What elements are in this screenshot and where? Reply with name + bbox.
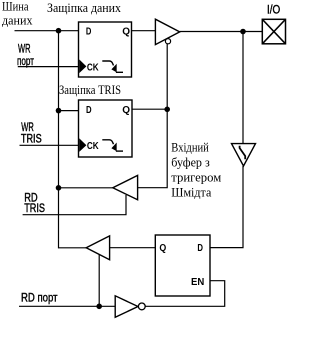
wire bus to D of TRIS latch: [59, 110, 79, 112]
svg-text:Шина: Шина: [2, 0, 29, 14]
svg-text:Вхідний: Вхідний: [171, 140, 209, 154]
svg-text:Шмідта: Шмідта: [171, 185, 211, 199]
wire I/O junction down to Schmitt buffer: [242, 32, 244, 144]
hysteresis symbol: [240, 146, 246, 160]
svg-text:I/O: I/O: [267, 4, 280, 16]
inverter bubble: [138, 303, 145, 310]
wire RD порт to inverter: [19, 305, 115, 307]
svg-text:буфер з: буфер з: [171, 155, 210, 169]
wire WR порт to CK of data latch: [18, 66, 79, 68]
wire EN to inverter output: [145, 281, 225, 307]
node TRIS-Q/enable junction: [164, 107, 170, 113]
node I/O junction: [240, 29, 246, 35]
clock input triangle of TRIS latch: [79, 138, 86, 152]
RD TRIS buffer (left pointing): [113, 175, 138, 199]
wire data bus horizontal to D of data latch: [15, 30, 79, 32]
read buffer (RD port, left pointing): [86, 236, 109, 260]
node bus/RD-TRIS junction: [56, 185, 62, 191]
tri-state output buffer: [155, 19, 179, 44]
D latch U1 (data latch) box: [79, 22, 132, 77]
svg-text:CK: CK: [87, 61, 99, 73]
svg-text:Защіпка даних: Защіпка даних: [47, 1, 122, 15]
node bus/TRIS-D junction: [56, 108, 62, 114]
svg-text:EN: EN: [191, 276, 204, 288]
svg-text:TRIS: TRIS: [21, 134, 42, 146]
input latch U3 box: [155, 235, 210, 296]
svg-text:TRIS: TRIS: [24, 203, 45, 215]
clock edge symbol of data latch: [102, 61, 123, 72]
wire RD TRIS to buffer enable: [23, 195, 126, 215]
wire data bus vertical: [58, 31, 60, 249]
wire WR TRIS to CK of TRIS latch: [20, 144, 80, 146]
svg-text:D: D: [86, 25, 92, 37]
svg-text:Q: Q: [122, 25, 130, 37]
svg-text:Q: Q: [122, 104, 130, 116]
svg-text:WR: WR: [21, 122, 34, 134]
label RD TRIS: [24, 193, 45, 215]
wire TRIS latch Q to enable line: [132, 108, 167, 110]
wire bus corner to read buffer output: [59, 247, 87, 249]
D latch U2 (TRIS latch) box: [79, 100, 133, 157]
svg-text:WR: WR: [18, 43, 31, 55]
svg-text:Защіпка TRIS: Защіпка TRIS: [59, 83, 121, 97]
wire data latch Q to output buffer: [132, 30, 156, 32]
wire RD TRIS buffer output to bus: [59, 187, 113, 189]
wire Schmitt output down to input latch D: [210, 166, 243, 248]
label WR порт: [17, 43, 35, 68]
wire enable vertical from bubble down to RD TRIS buffer: [138, 44, 168, 188]
inverter (RD port): [115, 296, 138, 318]
label WR TRIS: [21, 122, 42, 146]
svg-text:даних: даних: [2, 14, 33, 28]
enable bubble of output buffer: [165, 39, 170, 44]
node bus/data-latch junction: [56, 28, 62, 34]
wire read buffer input to latch Q: [110, 247, 156, 249]
clock edge symbol of TRIS latch: [102, 140, 123, 151]
label Шина даних: [2, 0, 33, 28]
label Вхідний буфер з тригером Шмідта: [171, 140, 221, 199]
svg-text:CK: CK: [87, 140, 99, 152]
svg-text:тригером: тригером: [171, 170, 221, 184]
svg-text:D: D: [197, 242, 203, 254]
I/O pad: [262, 19, 285, 44]
node RD порт junction: [96, 304, 102, 310]
svg-text:Q: Q: [159, 242, 166, 254]
Schmitt trigger input buffer: [232, 144, 256, 166]
wire read buffer enable down to RD порт: [98, 255, 100, 307]
wire output buffer to I/O pad: [180, 31, 263, 33]
svg-text:RD порт: RD порт: [21, 293, 58, 305]
svg-text:D: D: [86, 104, 92, 116]
clock input triangle of data latch: [79, 59, 86, 73]
